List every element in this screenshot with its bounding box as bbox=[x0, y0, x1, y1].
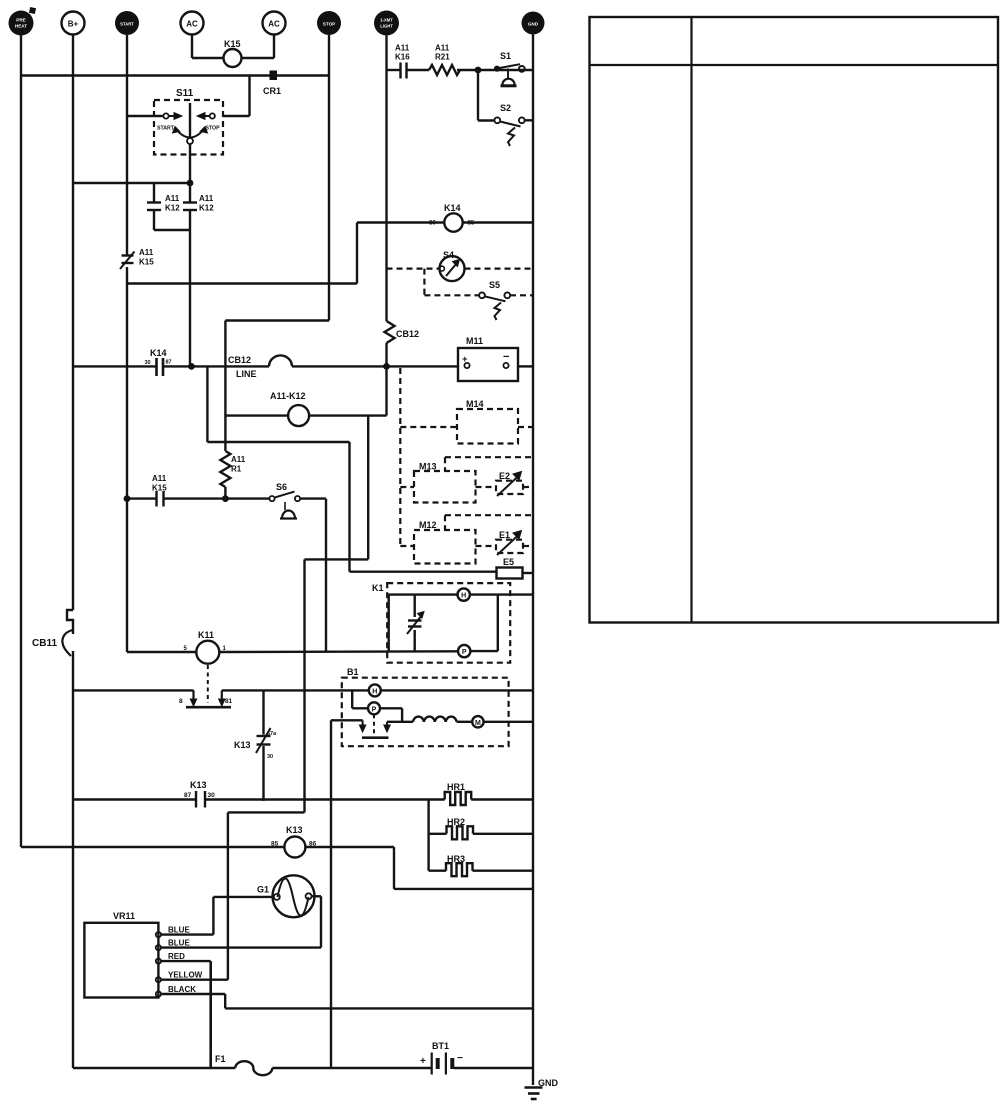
svg-text:A11: A11 bbox=[152, 474, 167, 483]
svg-text:G1: G1 bbox=[257, 885, 269, 895]
svg-text:S5: S5 bbox=[489, 280, 500, 290]
svg-text:HR2: HR2 bbox=[447, 817, 465, 827]
svg-text:K15: K15 bbox=[224, 39, 241, 49]
svg-text:S2: S2 bbox=[500, 103, 511, 113]
svg-text:CB11: CB11 bbox=[32, 638, 57, 649]
svg-text:K15: K15 bbox=[139, 258, 154, 267]
svg-text:S11: S11 bbox=[176, 88, 194, 99]
svg-text:A11: A11 bbox=[395, 44, 410, 53]
svg-text:30: 30 bbox=[208, 792, 216, 799]
svg-text:30: 30 bbox=[267, 754, 273, 760]
svg-text:86: 86 bbox=[429, 221, 436, 227]
svg-text:A11: A11 bbox=[231, 455, 246, 464]
svg-text:HR3: HR3 bbox=[447, 854, 465, 864]
svg-text:K13: K13 bbox=[286, 825, 303, 835]
svg-text:−: − bbox=[503, 351, 509, 363]
svg-text:M11: M11 bbox=[466, 336, 483, 346]
svg-text:YELLOW: YELLOW bbox=[168, 971, 203, 980]
svg-text:67a: 67a bbox=[267, 731, 277, 737]
svg-text:S1: S1 bbox=[500, 51, 511, 61]
svg-text:HEAT: HEAT bbox=[15, 24, 27, 29]
svg-text:CB12: CB12 bbox=[396, 329, 419, 339]
svg-text:S6: S6 bbox=[276, 482, 287, 492]
svg-text:RED: RED bbox=[168, 952, 185, 961]
svg-text:E2: E2 bbox=[499, 471, 510, 481]
svg-text:BT1: BT1 bbox=[432, 1041, 449, 1051]
svg-text:H: H bbox=[461, 593, 466, 600]
svg-text:R21: R21 bbox=[435, 53, 450, 62]
svg-text:87: 87 bbox=[166, 360, 172, 366]
svg-text:B+: B+ bbox=[68, 20, 79, 29]
svg-text:P: P bbox=[372, 706, 377, 713]
svg-text:8: 8 bbox=[179, 698, 183, 705]
svg-text:GND: GND bbox=[528, 22, 539, 27]
svg-text:START: START bbox=[157, 126, 175, 132]
svg-text:A11: A11 bbox=[165, 194, 180, 203]
svg-text:CB12: CB12 bbox=[228, 355, 251, 365]
svg-text:A11: A11 bbox=[139, 248, 154, 257]
svg-text:30: 30 bbox=[145, 360, 151, 366]
svg-text:B1: B1 bbox=[347, 667, 359, 677]
svg-text:1-XMT: 1-XMT bbox=[380, 18, 393, 23]
svg-text:LIGHT: LIGHT bbox=[380, 24, 393, 29]
svg-text:H: H bbox=[372, 688, 377, 695]
svg-text:M: M bbox=[475, 720, 481, 727]
svg-text:STOP: STOP bbox=[206, 126, 221, 132]
svg-text:K14: K14 bbox=[444, 203, 461, 213]
svg-text:BLACK: BLACK bbox=[168, 985, 196, 994]
svg-text:85: 85 bbox=[271, 841, 279, 848]
svg-text:R1: R1 bbox=[231, 465, 242, 474]
svg-text:85: 85 bbox=[468, 221, 475, 227]
svg-text:HR1: HR1 bbox=[447, 782, 465, 792]
svg-text:CR1: CR1 bbox=[263, 86, 281, 96]
svg-text:M13: M13 bbox=[419, 462, 437, 472]
svg-text:A11-K12: A11-K12 bbox=[270, 391, 306, 401]
svg-text:STOP: STOP bbox=[323, 22, 335, 27]
svg-text:LINE: LINE bbox=[236, 369, 257, 379]
svg-text:AC: AC bbox=[186, 20, 198, 29]
svg-text:81: 81 bbox=[225, 698, 233, 705]
svg-text:K11: K11 bbox=[198, 630, 214, 640]
svg-text:K13: K13 bbox=[234, 740, 251, 750]
svg-text:E5: E5 bbox=[503, 557, 514, 567]
svg-text:A11: A11 bbox=[199, 194, 214, 203]
svg-text:VR11: VR11 bbox=[113, 911, 135, 921]
svg-text:K12: K12 bbox=[199, 204, 214, 213]
svg-text:87: 87 bbox=[184, 792, 192, 799]
svg-text:S4: S4 bbox=[443, 250, 454, 260]
svg-text:AC: AC bbox=[268, 20, 280, 29]
svg-text:M14: M14 bbox=[466, 399, 484, 409]
svg-text:K15: K15 bbox=[152, 484, 167, 493]
svg-text:M12: M12 bbox=[419, 520, 437, 530]
svg-text:A11: A11 bbox=[435, 44, 450, 53]
svg-text:86: 86 bbox=[309, 841, 317, 848]
svg-text:BLUE: BLUE bbox=[168, 926, 190, 935]
svg-text:BLUE: BLUE bbox=[168, 939, 190, 948]
svg-text:+: + bbox=[420, 1056, 426, 1067]
svg-text:F1: F1 bbox=[215, 1054, 226, 1064]
svg-text:−: − bbox=[457, 1053, 463, 1064]
svg-text:P: P bbox=[462, 649, 467, 656]
svg-text:K1: K1 bbox=[372, 583, 384, 593]
svg-text:E1: E1 bbox=[499, 530, 510, 540]
svg-text:K16: K16 bbox=[395, 53, 410, 62]
svg-text:START: START bbox=[120, 22, 134, 27]
svg-text:PRE: PRE bbox=[16, 18, 25, 23]
svg-text:K12: K12 bbox=[165, 204, 180, 213]
svg-text:GND: GND bbox=[538, 1078, 559, 1088]
svg-text:K13: K13 bbox=[190, 780, 207, 790]
svg-text:K14: K14 bbox=[150, 348, 167, 358]
